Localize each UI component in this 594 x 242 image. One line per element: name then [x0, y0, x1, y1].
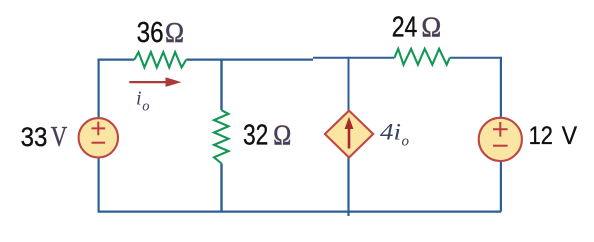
- wire bottom horizontal: [98, 210, 501, 212]
- svg-text:i: i: [136, 88, 142, 110]
- svg-text:V: V: [51, 122, 67, 153]
- wire middle vertical branch (32ohm) lower stub: [220, 164, 222, 212]
- svg-text:32: 32: [243, 120, 268, 152]
- wire top-right horizontal (step to 24ohm): [313, 57, 394, 59]
- dependent source arrow head: [345, 117, 354, 129]
- dependent current source diamond 4io: [325, 111, 373, 158]
- svg-text:Ω: Ω: [273, 120, 291, 152]
- 12V minus symbol: [493, 145, 508, 147]
- resistor R=32ohm vertical zigzag: [214, 110, 229, 163]
- svg-text:12: 12: [529, 122, 553, 150]
- svg-text:36: 36: [137, 17, 164, 49]
- resistor R=24ohm zigzag: [394, 49, 449, 65]
- svg-text:o: o: [142, 98, 149, 114]
- wire left vertical branch: [97, 59, 99, 212]
- wire top-left horizontal (left of 36ohm): [98, 58, 135, 60]
- wire middle vertical branch (32ohm) upper stub: [220, 59, 222, 111]
- svg-text:24: 24: [392, 12, 418, 44]
- 12V plus symbol: [493, 122, 508, 137]
- voltage source 12V circle: [479, 118, 522, 161]
- svg-text:Ω: Ω: [165, 17, 184, 49]
- current io arrow shaft: [129, 81, 168, 83]
- wire right vertical branch: [500, 57, 502, 212]
- 33V plus symbol: [92, 122, 106, 136]
- voltage source 33V circle: [79, 118, 118, 157]
- dependent source arrow shaft: [348, 127, 351, 149]
- svg-text:o: o: [402, 134, 410, 150]
- resistor R=36ohm zigzag: [134, 52, 186, 67]
- wire current-source branch lower stub: [347, 158, 349, 217]
- svg-text:33: 33: [21, 122, 48, 152]
- wire top-right horizontal (24ohm to right corner): [450, 57, 501, 59]
- 33V minus symbol: [92, 142, 106, 144]
- current io arrow head: [166, 77, 182, 87]
- svg-text:4i: 4i: [380, 120, 401, 145]
- wire top horizontal (36ohm to step junction): [186, 58, 313, 60]
- wire current-source branch upper stub: [348, 57, 350, 111]
- svg-text:V: V: [562, 122, 578, 150]
- svg-text:Ω: Ω: [421, 12, 441, 44]
